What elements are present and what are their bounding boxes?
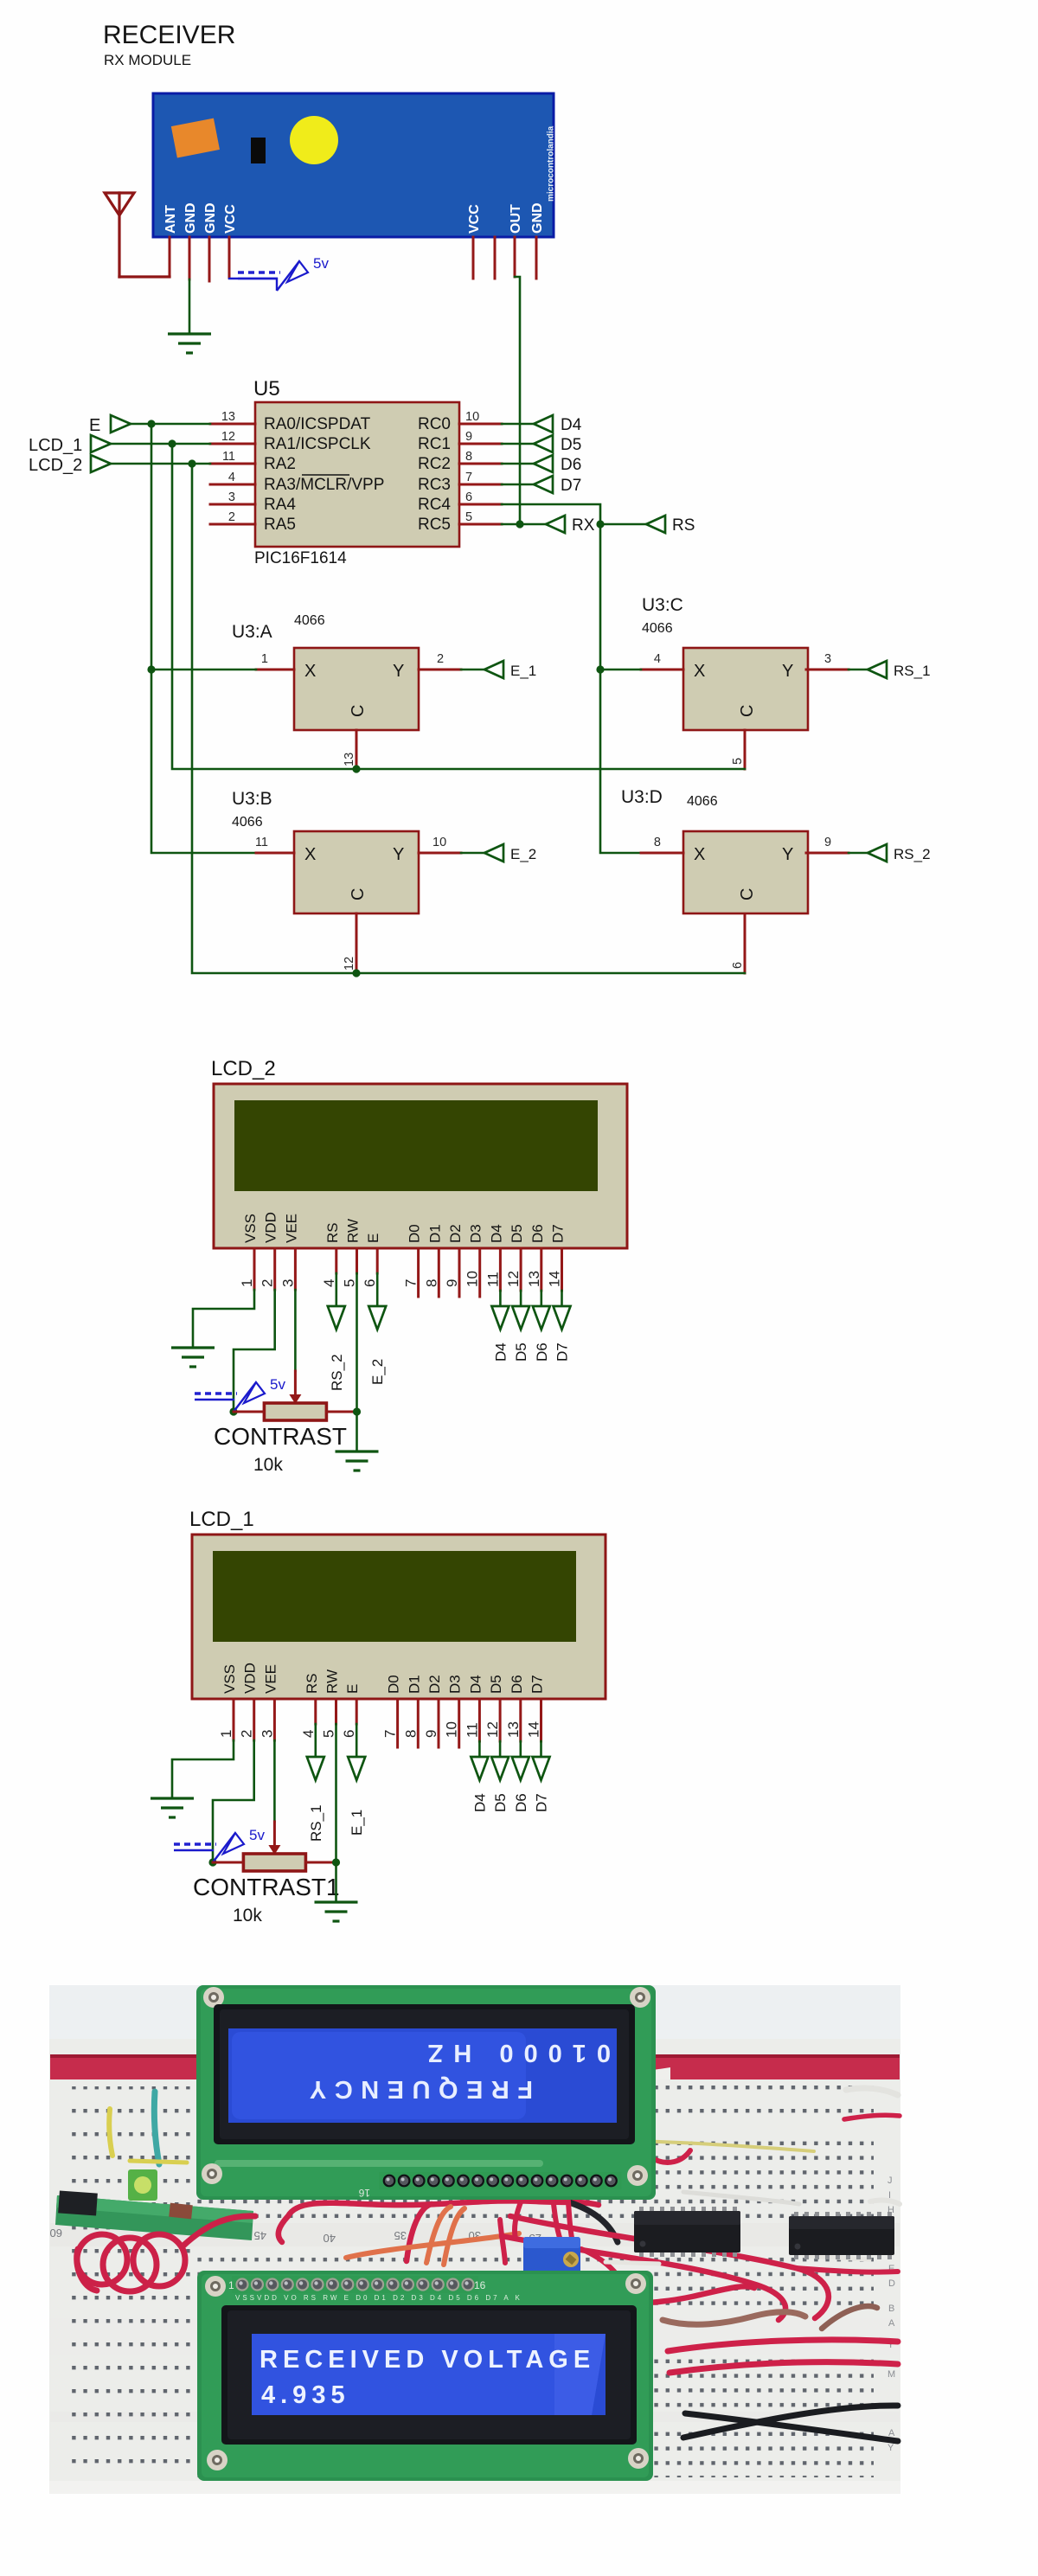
yellow jumper xyxy=(109,2109,112,2156)
svg-text:LCD_1: LCD_1 xyxy=(29,436,82,455)
svg-text:LCD_2: LCD_2 xyxy=(29,456,82,475)
svg-text:D: D xyxy=(888,2278,895,2289)
port D4 xyxy=(534,415,582,434)
top LCD text (rotated 180) xyxy=(301,2039,611,2103)
wire OUT down to RC5 net xyxy=(515,277,520,524)
IC chip 1 xyxy=(634,2207,740,2257)
svg-text:CONTRAST: CONTRAST xyxy=(214,1423,347,1450)
svg-text:8: 8 xyxy=(423,1279,439,1287)
wire RC4 to U3:C X xyxy=(600,669,641,671)
svg-text:J: J xyxy=(887,2176,893,2186)
teal jumper xyxy=(154,2092,159,2164)
white jumper mid right xyxy=(870,2201,900,2204)
svg-text:10k: 10k xyxy=(253,1455,283,1475)
node LCD_2 to U3:B C xyxy=(352,969,360,977)
svg-text:RS_1: RS_1 xyxy=(308,1804,324,1842)
LCD_1 pot wiper arrow xyxy=(268,1845,280,1855)
orange arc wire 1 xyxy=(426,2207,451,2263)
U3:D pin 8 stub xyxy=(641,836,683,853)
receiver pin GND left xyxy=(189,237,191,279)
receiver RX module xyxy=(153,93,556,237)
bottom LCD bezel xyxy=(221,2305,637,2445)
transistor-switch U3:D body xyxy=(683,831,808,913)
port D6 xyxy=(534,455,581,474)
svg-text:4: 4 xyxy=(321,1279,337,1287)
U3:B pin 10 stub xyxy=(419,836,461,853)
port D4 LCD_2 xyxy=(491,1306,509,1330)
port E_1 xyxy=(484,661,536,679)
wire LCD_1 control net xyxy=(172,444,745,769)
wire LCD_2 VDD to 5v xyxy=(234,1290,275,1412)
svg-text:5: 5 xyxy=(465,510,472,524)
node pot right junction xyxy=(353,1407,361,1415)
svg-text:D6: D6 xyxy=(509,1675,525,1694)
LCD_2 pin 4 stub xyxy=(321,1248,337,1287)
svg-text:RECEIVED VOLTAGE: RECEIVED VOLTAGE xyxy=(259,2346,595,2374)
U5 pin 13 stub xyxy=(210,410,255,424)
svg-text:U3:C: U3:C xyxy=(642,595,683,615)
LCD_1 pin 5 stub xyxy=(321,1699,337,1738)
svg-text:4: 4 xyxy=(228,471,235,484)
node E junction xyxy=(147,420,155,427)
port E_1 xyxy=(348,1757,365,1780)
power 5v receiver xyxy=(229,255,329,291)
svg-text:D4: D4 xyxy=(471,1793,488,1812)
wire U3:A Y to E_1 xyxy=(461,669,484,671)
white thin wires right xyxy=(683,2192,799,2204)
svg-text:8: 8 xyxy=(654,836,661,849)
node pot right junction xyxy=(332,1858,340,1866)
port RS xyxy=(646,516,695,535)
svg-text:3: 3 xyxy=(824,652,831,666)
svg-text:D4: D4 xyxy=(488,1224,504,1243)
port D4 LCD_1 xyxy=(471,1757,488,1780)
U5 pin 10 stub xyxy=(459,410,502,424)
svg-text:D4: D4 xyxy=(467,1675,484,1694)
svg-text:VEE: VEE xyxy=(262,1664,279,1694)
red wire left of IC1 xyxy=(515,2182,529,2239)
LCD_1 pin 13 stub xyxy=(505,1699,522,1741)
port E_2 xyxy=(484,844,536,862)
receiver pin OUT xyxy=(514,237,516,277)
svg-text:5: 5 xyxy=(731,758,745,765)
svg-text:D5: D5 xyxy=(488,1675,504,1694)
svg-text:D4: D4 xyxy=(561,416,582,434)
black jumper pair bottom right xyxy=(683,2406,898,2441)
wire LCD_2 pin 13 to port D6 xyxy=(540,1291,542,1307)
svg-text:U3:D: U3:D xyxy=(621,787,663,807)
svg-text:5v: 5v xyxy=(270,1376,285,1393)
svg-text:D7: D7 xyxy=(529,1675,546,1694)
wire LCD_1 pin 13 to port D6 xyxy=(519,1741,522,1758)
switch U3:A labels xyxy=(232,613,325,642)
node LCD_2 junction xyxy=(188,459,195,467)
wire LCD_2 pin 6 to port xyxy=(376,1273,379,1307)
svg-text:3: 3 xyxy=(259,1730,275,1738)
LCD_2 pin 5 stub xyxy=(342,1248,358,1287)
svg-text:VEE: VEE xyxy=(283,1214,299,1243)
svg-text:OUT: OUT xyxy=(509,204,523,234)
svg-text:D3: D3 xyxy=(468,1224,484,1243)
svg-text:4.935: 4.935 xyxy=(261,2381,350,2409)
wire pot left terminal xyxy=(213,1862,243,1864)
wire U3:B Y to E_2 xyxy=(461,852,484,855)
port D7 xyxy=(534,476,581,495)
U3:B pin 12 stub (C) xyxy=(343,913,356,973)
LCD_2 pot wiper arrow xyxy=(289,1394,301,1404)
LCD_2 pin 10 stub xyxy=(465,1248,481,1297)
svg-text:10k: 10k xyxy=(233,1906,262,1926)
U5 pin 9 stub xyxy=(459,430,502,444)
svg-text:RS: RS xyxy=(324,1222,341,1243)
svg-text:RA2: RA2 xyxy=(264,455,296,473)
svg-text:A: A xyxy=(888,2318,895,2329)
svg-text:D6: D6 xyxy=(561,456,581,474)
red arc wire xyxy=(407,2204,432,2261)
svg-text:4: 4 xyxy=(654,652,661,666)
svg-text:RC3: RC3 xyxy=(418,476,451,494)
port RX xyxy=(546,516,595,535)
svg-text:RX: RX xyxy=(572,516,595,535)
svg-text:13: 13 xyxy=(505,1721,522,1738)
port D5 xyxy=(534,435,581,454)
port D5 LCD_2 xyxy=(512,1306,529,1330)
svg-text:D3: D3 xyxy=(447,1675,464,1694)
svg-text:3: 3 xyxy=(279,1279,296,1287)
svg-text:10: 10 xyxy=(465,410,479,424)
red wire to right edge xyxy=(796,2268,898,2272)
svg-text:RS_2: RS_2 xyxy=(894,846,931,862)
svg-text:RA4: RA4 xyxy=(264,496,296,514)
LCD_1 pin 3 stub xyxy=(259,1699,275,1740)
red wire crossing channel 1 xyxy=(545,2145,561,2240)
bottom LCD blue screen xyxy=(252,2334,605,2415)
svg-text:1: 1 xyxy=(261,652,268,666)
U5 pin 5 stub xyxy=(459,510,502,524)
LCD_2 pin 3 stub xyxy=(279,1248,296,1290)
white wire above IC2 xyxy=(804,2256,869,2259)
svg-text:E: E xyxy=(344,1684,361,1694)
switch U3:C labels xyxy=(642,595,683,636)
LCD_1 pin 1 stub xyxy=(218,1699,234,1740)
svg-text:RC5: RC5 xyxy=(418,516,451,534)
white jumper top right xyxy=(846,2088,898,2095)
svg-text:7: 7 xyxy=(382,1730,399,1738)
black wire near header xyxy=(569,2202,618,2242)
red vertical wire xyxy=(500,2220,505,2263)
svg-text:RA1/ICSPCLK: RA1/ICSPCLK xyxy=(264,435,371,453)
svg-text:35: 35 xyxy=(394,2229,407,2242)
wire LCD_1 pin 6 to port xyxy=(356,1724,358,1758)
svg-text:LCD_2: LCD_2 xyxy=(211,1057,276,1080)
svg-text:X: X xyxy=(694,845,705,864)
white wire above IC1 xyxy=(605,2262,659,2264)
wire LCD_2 VSS to ground xyxy=(193,1290,254,1347)
U5 pin 8 stub xyxy=(459,450,502,464)
breadboard photo background xyxy=(49,1985,900,2494)
wire LCD_2 pin 14 to port D7 xyxy=(561,1291,563,1307)
svg-text:VDD: VDD xyxy=(263,1212,279,1243)
svg-text:RA3/MCLR/VPP: RA3/MCLR/VPP xyxy=(264,476,384,494)
svg-text:10: 10 xyxy=(465,1271,481,1287)
svg-text:D2: D2 xyxy=(447,1224,464,1243)
antenna xyxy=(105,193,134,277)
wire U3:C Y to RS_1 xyxy=(849,669,868,671)
svg-text:5: 5 xyxy=(342,1279,358,1287)
node LCD_1 5v junction xyxy=(208,1858,216,1866)
red sweep under ICs 2 xyxy=(502,2236,785,2320)
U3:D pin 6 stub (C) xyxy=(731,915,745,973)
svg-text:U3:B: U3:B xyxy=(232,789,272,809)
svg-text:Y: Y xyxy=(393,662,404,681)
ground LCD_2 VSS xyxy=(171,1348,215,1367)
svg-text:D0: D0 xyxy=(407,1224,423,1243)
LCD_2 pin 13 stub xyxy=(526,1248,542,1291)
svg-text:16: 16 xyxy=(474,2279,486,2291)
receiver pin VCC left xyxy=(228,237,231,278)
svg-text:X: X xyxy=(304,662,316,681)
svg-text:1: 1 xyxy=(239,1279,255,1287)
svg-text:2: 2 xyxy=(437,652,444,666)
svg-text:D6: D6 xyxy=(513,1793,529,1812)
svg-text:E: E xyxy=(365,1234,381,1243)
svg-text:12: 12 xyxy=(484,1721,501,1738)
red sweep under ICs 1 xyxy=(510,2216,829,2318)
wire LCD_2 pin 4 to port xyxy=(335,1273,337,1307)
bottom LCD pin 1 and 16 labels xyxy=(228,2279,486,2291)
LCD_1 pin 11 stub xyxy=(464,1699,480,1741)
svg-text:E_1: E_1 xyxy=(510,663,536,679)
LCD_2 pin 12 stub xyxy=(505,1248,522,1291)
ground LCD_2 pot xyxy=(336,1451,379,1471)
U5 pin 2 stub xyxy=(210,510,255,524)
svg-text:FREQUENCY: FREQUENCY xyxy=(301,2075,533,2103)
svg-text:PIC16F1614: PIC16F1614 xyxy=(254,549,347,567)
svg-text:12: 12 xyxy=(505,1271,522,1287)
svg-text:U3:A: U3:A xyxy=(232,622,272,642)
svg-text:RS_2: RS_2 xyxy=(329,1354,345,1391)
wire RC2 to D6 xyxy=(502,463,534,465)
U5 pin 6 stub xyxy=(459,490,502,504)
port D5 LCD_1 xyxy=(491,1757,509,1780)
wire LCD_2 control net xyxy=(192,464,745,973)
svg-text:D7: D7 xyxy=(534,1793,550,1812)
svg-text:16: 16 xyxy=(358,2187,370,2199)
svg-text:4: 4 xyxy=(300,1730,317,1738)
svg-text:D1: D1 xyxy=(426,1224,443,1243)
svg-text:4066: 4066 xyxy=(232,815,263,830)
LCD_1 pot wiper lead xyxy=(273,1822,276,1849)
blue trimpot xyxy=(523,2237,580,2275)
svg-text:Y: Y xyxy=(782,662,793,681)
LCD_1 pin 6 stub xyxy=(341,1699,357,1738)
wire E to RA0 xyxy=(131,423,210,426)
LCD_2 pin 2 stub xyxy=(259,1248,276,1290)
lcd LCD_1 body xyxy=(192,1535,605,1699)
port D6 LCD_2 xyxy=(533,1306,550,1330)
port LCD_2 xyxy=(29,455,111,475)
svg-text:D5: D5 xyxy=(492,1793,509,1812)
red wire crossing channel 2 xyxy=(561,2145,574,2249)
svg-text:7: 7 xyxy=(403,1279,420,1287)
wire pot right terminal xyxy=(326,1411,356,1413)
svg-text:RS_1: RS_1 xyxy=(894,663,931,679)
svg-text:D7: D7 xyxy=(561,477,581,495)
LCD_2 pin 8 stub xyxy=(423,1248,439,1297)
node OUT junction xyxy=(516,520,523,528)
svg-text:GND: GND xyxy=(183,202,198,234)
svg-text:RC1: RC1 xyxy=(418,435,451,453)
lcd LCD_2 body xyxy=(214,1084,627,1248)
svg-text:01000 HZ: 01000 HZ xyxy=(418,2039,611,2067)
svg-text:E_1: E_1 xyxy=(349,1810,365,1836)
wire to RS port xyxy=(600,523,646,526)
breadboard column numbers xyxy=(50,2176,896,2453)
resistor CONTRAST1 10k pot body xyxy=(243,1854,305,1871)
svg-text:40: 40 xyxy=(324,2232,336,2245)
U3:A pin 13 stub (C) xyxy=(343,730,356,769)
U3:B pin 11 stub xyxy=(255,836,294,853)
svg-text:5v: 5v xyxy=(249,1827,265,1843)
svg-text:4066: 4066 xyxy=(294,613,325,628)
svg-text:D5: D5 xyxy=(509,1224,525,1243)
svg-text:6: 6 xyxy=(465,490,472,504)
wire pot to ground xyxy=(356,1412,358,1451)
port LCD_1 xyxy=(29,435,111,455)
svg-text:B: B xyxy=(888,2304,894,2314)
LCD_1 pin 10 stub xyxy=(444,1699,460,1747)
svg-text:13: 13 xyxy=(221,410,235,424)
svg-text:RS: RS xyxy=(304,1673,320,1694)
LCD_1 pin 8 stub xyxy=(402,1699,419,1747)
receiver pin ANT xyxy=(169,237,171,277)
svg-text:microcontrolandia: microcontrolandia xyxy=(547,125,556,202)
svg-text:1: 1 xyxy=(228,2279,234,2291)
transistor-switch U3:C body xyxy=(683,648,808,730)
red wavy wire lower xyxy=(519,2286,754,2304)
U3:C pin 5 stub (C) xyxy=(731,730,745,769)
svg-text:RW: RW xyxy=(324,1669,341,1694)
svg-text:D7: D7 xyxy=(550,1224,567,1243)
U3:C pin 4 stub xyxy=(641,652,683,670)
svg-text:D0: D0 xyxy=(386,1675,402,1694)
wire LCD_1 VDD to 5v xyxy=(213,1740,254,1862)
svg-text:VDD: VDD xyxy=(242,1663,259,1694)
svg-text:C: C xyxy=(349,705,368,717)
long red wire across middle xyxy=(288,2201,599,2216)
breadboard hole bands xyxy=(50,2085,900,2481)
top LCD screw holes xyxy=(202,1987,650,2186)
svg-text:RC0: RC0 xyxy=(418,415,451,433)
svg-text:2: 2 xyxy=(259,1279,276,1287)
receiver pin unlabeled xyxy=(494,237,497,279)
svg-text:4066: 4066 xyxy=(642,621,673,636)
port E xyxy=(89,415,131,435)
svg-text:11: 11 xyxy=(222,450,235,464)
svg-text:RECEIVER: RECEIVER xyxy=(103,21,235,49)
svg-text:6: 6 xyxy=(341,1730,357,1738)
switch U3:B labels xyxy=(232,789,272,830)
svg-text:7: 7 xyxy=(465,471,472,484)
wire LCD_1 pin 14 to port D7 xyxy=(540,1741,542,1758)
wire LCD_1 pin 4 to port xyxy=(314,1724,317,1758)
svg-text:GND: GND xyxy=(203,202,218,234)
svg-text:2: 2 xyxy=(239,1730,255,1738)
wire LCD_2 pin 12 to port D5 xyxy=(520,1291,522,1307)
svg-text:E: E xyxy=(89,416,100,435)
svg-text:8: 8 xyxy=(402,1730,419,1738)
wire LCD_2 pin 11 to port D4 xyxy=(499,1291,502,1307)
svg-text:45: 45 xyxy=(254,2229,266,2242)
receiver pin GND right xyxy=(535,237,538,279)
yellow short wire xyxy=(130,2161,187,2163)
svg-text:X: X xyxy=(694,662,705,681)
svg-text:D7: D7 xyxy=(554,1342,571,1362)
port RS_2 xyxy=(328,1306,345,1330)
LCD_1 pin 14 stub xyxy=(526,1699,542,1741)
op-amp U5 PIC16F1614 body xyxy=(253,377,459,567)
U5 pin 7 stub xyxy=(459,471,502,484)
svg-text:9: 9 xyxy=(824,836,831,849)
power 5v LCD_1 xyxy=(174,1827,265,1862)
svg-text:RC4: RC4 xyxy=(418,496,451,514)
ground LCD_1 VSS xyxy=(151,1798,194,1817)
wire GND to ground xyxy=(189,279,191,333)
svg-text:D2: D2 xyxy=(426,1675,443,1694)
red jumper pair bottom right xyxy=(668,2340,898,2373)
port E_2 xyxy=(368,1306,386,1330)
ground LCD_1 pot xyxy=(315,1902,358,1921)
orange horizontal wire xyxy=(346,2233,519,2258)
wire RC4 net xyxy=(502,504,641,853)
brown wire right xyxy=(822,2306,877,2329)
wire LCD_1 pin 12 to port D5 xyxy=(499,1741,502,1758)
svg-text:D5: D5 xyxy=(513,1342,529,1362)
U5 pin 3 stub xyxy=(210,490,255,504)
svg-text:9: 9 xyxy=(465,430,472,444)
receiver pin VCC right xyxy=(472,237,475,279)
LCD_2 pot wiper lead xyxy=(294,1371,297,1398)
svg-text:GND: GND xyxy=(530,202,545,234)
LCD_2 pin 6 stub xyxy=(362,1248,378,1287)
U3:C pin 3 stub xyxy=(806,652,849,670)
CONTRAST1 labels xyxy=(193,1874,340,1926)
svg-text:6: 6 xyxy=(362,1279,378,1287)
port RS_1 xyxy=(307,1757,324,1780)
wire RC5 to RX xyxy=(502,523,546,526)
node LCD_1 junction xyxy=(168,439,176,447)
node LCD_2 5v junction xyxy=(229,1407,237,1415)
wire LCD_2 RW to pot xyxy=(356,1273,358,1412)
switch U3:D labels xyxy=(621,787,718,809)
svg-text:VCC: VCC xyxy=(223,204,238,234)
port RS_1 xyxy=(868,661,931,679)
top LCD bezel xyxy=(214,2004,635,2144)
node RC4 to U3C xyxy=(596,665,604,673)
svg-text:E_2: E_2 xyxy=(510,846,536,862)
port RS_2 xyxy=(868,844,931,862)
red wire from trimpot xyxy=(581,2249,626,2292)
wire LCD_2 to RA2 xyxy=(111,463,210,465)
red coil wires xyxy=(77,2216,255,2291)
svg-text:X: X xyxy=(304,845,316,864)
wire LCD_1 to RA1 xyxy=(111,443,210,445)
svg-text:Y: Y xyxy=(782,845,793,864)
wire LCD_1 VEE down xyxy=(273,1740,276,1822)
bottom LCD module PCB xyxy=(197,2271,653,2481)
svg-text:11: 11 xyxy=(484,1272,501,1287)
U3:A pin 1 stub xyxy=(256,652,294,670)
